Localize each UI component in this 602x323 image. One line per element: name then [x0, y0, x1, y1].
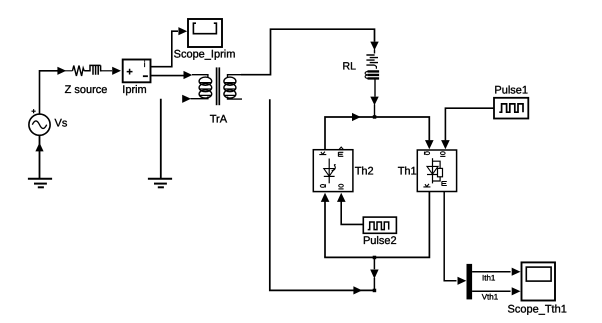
wire transformer primary bottom to ground [160, 99, 162, 178]
svg-text:Iprim: Iprim [122, 84, 146, 96]
arrow into Iprim [112, 67, 121, 75]
Th2 port g (rotated) [339, 184, 344, 187]
svg-text:Scope_Tth1: Scope_Tth1 [508, 304, 567, 316]
svg-text:RL: RL [343, 60, 357, 72]
arrow into Scope_Iprim [178, 27, 187, 35]
node junction [373, 115, 377, 119]
transformer TrA [191, 67, 243, 105]
arrow toward Vs on ground wire [35, 143, 43, 152]
pulse generator Pulse1 [494, 98, 528, 119]
svg-text:Vs: Vs [55, 118, 68, 130]
svg-text:Th1: Th1 [398, 165, 417, 177]
resistor (Z source) [73, 66, 85, 76]
Th2 thyristor symbol [328, 159, 330, 184]
Th1 thyristor symbol with snubber [432, 158, 434, 183]
series RL branch RL [365, 50, 379, 79]
svg-text:Scope_Iprim: Scope_Iprim [174, 49, 236, 61]
wire node to thyristor tops [325, 117, 429, 150]
svg-text:TrA: TrA [210, 114, 228, 126]
arrow on node wire [352, 113, 361, 121]
wire transformer secondary bottom return [270, 99, 375, 290]
Th2 port a (rotated) [320, 185, 325, 188]
arrow into Th2 gate [337, 193, 346, 202]
arrow on junction drop [370, 270, 378, 279]
arrow into Z source [57, 67, 66, 75]
arrow into scope input 2 [512, 287, 521, 295]
thyristor block Th2 [313, 147, 353, 192]
junction on cathode wire [373, 256, 377, 260]
Th2 port k (rotated) [319, 152, 326, 155]
svg-text:Th2: Th2 [355, 165, 374, 177]
arrow into demux [458, 277, 467, 285]
Th1 port k (rotated) [423, 184, 430, 187]
inductor (Z source) [84, 65, 101, 74]
arrow RL to node [370, 97, 378, 106]
arrow into Th1 anode [425, 140, 434, 149]
Th2 port E [338, 152, 343, 156]
Th1 port a (rotated) [425, 152, 430, 155]
current measurement block Iprim [123, 60, 151, 83]
arrow into transformer primary top [184, 71, 193, 79]
arrow on return wire [353, 286, 362, 294]
junction lower [373, 289, 377, 293]
demux [467, 264, 473, 300]
wire Th1 measurement to demux [444, 192, 456, 281]
svg-text:Pulse2: Pulse2 [363, 235, 397, 247]
wire Th1 cathode to Th2 anode wire [324, 192, 429, 258]
wire demux to scope input 1 [472, 271, 511, 273]
wire junction down [373, 257, 375, 269]
Th1 port E [442, 181, 447, 185]
wire transformer secondary top to RL [241, 29, 375, 74]
arrow into transformer primary bottom [182, 95, 191, 103]
wire Iprim - output to transformer [151, 75, 184, 77]
wire Th2 anode down [324, 201, 326, 257]
wire Vs to Z source [40, 71, 59, 114]
Th2 unconnected port caret [339, 147, 343, 149]
Th1 port g (rotated) [441, 152, 446, 155]
wire Pulse1 to Th1 gate [445, 108, 493, 140]
wire demux to scope input 2 [472, 290, 511, 292]
wire RL arrow to node [374, 80, 377, 117]
thyristor block Th1 [417, 150, 456, 192]
svg-text:i: i [144, 59, 146, 69]
pulse generator Pulse2 [363, 217, 396, 233]
arrow into Th2 anode [321, 193, 330, 202]
svg-text:Ith1: Ith1 [482, 274, 496, 283]
wire Vs bottom to ground [39, 135, 41, 178]
svg-text:Pulse1: Pulse1 [494, 84, 528, 96]
scope block Scope_Iprim [188, 19, 222, 47]
arrow into RL [370, 42, 378, 51]
arrow into Th1 gate [441, 140, 450, 149]
AC voltage source Vs [29, 109, 50, 135]
ground (near Vs) [28, 179, 52, 188]
ground (near Iprim) [148, 179, 172, 188]
scope block Scope_Tth1 [522, 262, 556, 300]
arrow into scope input 1 [512, 268, 521, 276]
svg-text:Vth1: Vth1 [482, 292, 499, 301]
wire Iprim i output to Scope_Iprim [151, 31, 179, 66]
wire Pulse2 to Th2 gate [341, 201, 363, 224]
wire Z source to Iprim [101, 70, 112, 72]
svg-text:Z source: Z source [65, 84, 108, 96]
